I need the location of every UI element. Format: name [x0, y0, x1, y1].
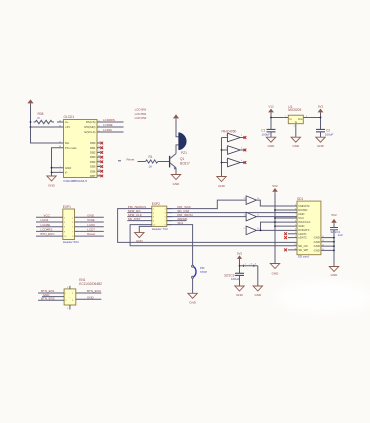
junction at R08 input: [30, 121, 32, 123]
wire GND to EN1: [42, 296, 64, 298]
svg-text:SD_/RST: SD_/RST: [128, 217, 141, 221]
svg-text:DB5: DB5: [90, 165, 96, 169]
svg-text:SD_WP: SD_WP: [298, 248, 308, 252]
wire BTN_ENC to EXP1: [36, 235, 58, 237]
wire PS-mode / GND / K- bus: [52, 148, 59, 176]
wire buffer input bus: [222, 138, 228, 177]
svg-text:+ G: + G: [249, 263, 253, 265]
wire LCD_RS to EXP1: [36, 230, 58, 232]
svg-text:PS mode: PS mode: [65, 146, 77, 150]
svg-text:GLCD1: GLCD1: [64, 115, 75, 119]
power symbol VCC (buzzer): [173, 114, 179, 119]
wire L1 to ground: [257, 266, 259, 286]
wire EXP2 row5 right to PRI STOP: [167, 225, 193, 266]
wire C4 / SD GND rail: [333, 223, 335, 266]
svg-text:Reset: Reset: [87, 232, 95, 236]
wire PRI STOP to ground: [192, 278, 194, 293]
svg-text:GND: GND: [65, 166, 71, 170]
svg-text:Reset: Reset: [127, 157, 135, 161]
wire Q1 emitter to ground: [175, 168, 177, 175]
ground symbol C2: [316, 137, 325, 142]
svg-text:R1: R1: [149, 155, 153, 159]
GLCD1 pin numbers: [59, 120, 101, 176]
junction buffer2 input: [221, 149, 223, 151]
svg-text:LCD#RS: LCD#RS: [103, 118, 115, 122]
svg-text:Header 5X2: Header 5X2: [63, 240, 79, 244]
wire VCC vertical to Rst: [31, 105, 59, 144]
no-connect X buffer U2A: [244, 136, 247, 139]
svg-text:GND: GND: [314, 248, 320, 252]
svg-text:GND: GND: [272, 272, 280, 276]
svg-text:LCD#RS: LCD#RS: [41, 228, 53, 232]
stub dash left of Reset: [118, 160, 121, 162]
svg-text:GND: GND: [292, 144, 300, 148]
EN1 bottom stub: [69, 305, 71, 310]
wire rail to SD DICMD: [275, 209, 297, 211]
svg-text:BTN_EN2: BTN_EN2: [41, 296, 55, 300]
SD1 pin names right: [314, 236, 320, 253]
SD1 pin names left: [298, 204, 310, 252]
svg-text:Q1: Q1: [180, 157, 184, 161]
svg-text:A+: A+: [65, 120, 69, 124]
svg-text:EXP2: EXP2: [152, 202, 160, 206]
wire GND from EN1: [76, 298, 102, 300]
wire LCD6 from EXP1: [79, 221, 104, 223]
GLCD module GLCD1: [64, 120, 98, 178]
svg-text:GND: GND: [268, 144, 276, 148]
buffer U2C: [226, 158, 245, 167]
svg-text:GND: GND: [48, 184, 56, 188]
svg-text:5V2: 5V2: [272, 184, 278, 188]
wire R1 to Q1 base: [158, 161, 170, 163]
svg-text:GND: GND: [236, 293, 244, 297]
power symbol VCC (GLCD section): [27, 99, 33, 104]
svg-text:V12: V12: [268, 105, 274, 109]
resistor R08: [34, 120, 55, 123]
svg-text:BTN_ENC: BTN_ENC: [87, 289, 102, 293]
svg-text:SD1: SD1: [177, 221, 183, 225]
svg-text:+5V: +5V: [65, 125, 70, 129]
wire 5V rail vertical: [274, 192, 276, 263]
svg-text:LCD6: LCD6: [87, 223, 95, 227]
GLCD1 DB0-DB7 no-connect stubs: [97, 143, 101, 176]
transistor Q1 BC817: [170, 154, 190, 170]
SD1 no-connect stub uDAT1: [288, 233, 297, 235]
wire regulator GND pin: [295, 124, 297, 138]
junction buffer3 input: [221, 162, 223, 164]
wire C2 to ground: [320, 132, 322, 137]
buffer U3B: [244, 212, 261, 221]
no-connect X buffer U2B: [244, 149, 247, 152]
wire U3C output branch to SD CLK: [261, 222, 298, 230]
svg-text:GND: GND: [136, 239, 144, 243]
junction SD GND rail dots: [333, 237, 335, 239]
stub EXP2 row4 right RES: [167, 220, 187, 222]
regulator U1 MIC5209: [283, 117, 308, 119]
ground symbol L1: [253, 286, 262, 291]
capacitor C3: [224, 273, 244, 281]
wire EXP2 row1 left loop to SD: [118, 209, 297, 243]
svg-text:DB7: DB7: [90, 174, 96, 178]
svg-text:PRI: PRI: [200, 266, 205, 270]
junction K- pin: [51, 172, 53, 174]
wire LCD_RW net: [97, 126, 124, 128]
svg-text:DB3: DB3: [90, 155, 96, 159]
junction U3C output branch: [260, 230, 262, 232]
jumper link L1: [240, 263, 258, 267]
svg-text:DB6: DB6: [90, 169, 96, 173]
ground symbol PRI STOP: [188, 293, 197, 298]
ground symbol below Q1: [171, 175, 180, 180]
wire U3C output to SD DODAT0: [256, 229, 297, 231]
svg-text:Rst: Rst: [65, 141, 69, 145]
ground symbol C1: [266, 137, 275, 142]
svg-text:SD card: SD card: [298, 255, 309, 259]
buffer U3C: [244, 226, 261, 235]
svg-text:100uF: 100uF: [325, 133, 334, 137]
wire SPI_CLK to EXP2: [127, 216, 147, 218]
wire SPI_DO to EXP2: [127, 212, 147, 214]
wire LCD7 from EXP1: [79, 226, 104, 228]
wire EXP2 row3 right to buffer U3B: [167, 216, 246, 218]
EXP1 pin stubs: [58, 217, 79, 236]
svg-text:DB4: DB4: [90, 160, 96, 164]
ground symbol regulator: [291, 137, 300, 142]
capacitor C1: [261, 128, 275, 136]
svg-text:5V2: 5V2: [318, 105, 324, 109]
svg-text:5V2: 5V2: [237, 251, 243, 255]
pushbutton PRI STOP: [192, 265, 208, 278]
capacitor C4: [330, 228, 343, 237]
ground symbol 5V rail bottom: [270, 264, 279, 269]
no-connect X marks DB0-DB7: [100, 142, 103, 178]
svg-text:uDAT2: uDAT2: [298, 236, 307, 240]
wire PZ1 to Q1 collector: [176, 145, 179, 154]
junction VIN node: [270, 117, 272, 119]
svg-text:VCC: VCC: [44, 213, 51, 217]
EXP2 pin numbers: [153, 209, 166, 227]
svg-text:GND: GND: [317, 144, 325, 148]
wire EXP2 row5 left loop to SD_CD: [130, 225, 297, 246]
svg-text:100uF: 100uF: [261, 133, 270, 137]
wire BTN_ENC from EN1: [76, 292, 102, 294]
buffer U2A: [226, 133, 245, 142]
wire VIN rail: [271, 113, 283, 129]
wire resistor to A+ pin: [57, 121, 64, 123]
wire EXP2 ground branch: [139, 226, 152, 232]
wire C3 to ground: [239, 275, 241, 286]
wire SD_RST to EXP2: [127, 220, 147, 222]
buffer U2B: [226, 146, 245, 155]
wire rail to SD GND row: [275, 225, 297, 227]
svg-text:Header 7X2: Header 7X2: [152, 227, 168, 231]
wire VCC to +5V pin: [31, 126, 64, 128]
svg-text:LCD4: LCD4: [41, 218, 49, 222]
svg-text:5V#E: 5V#E: [87, 218, 94, 222]
ground symbol below GLCD: [47, 176, 56, 181]
svg-text:EC11/02/D64B2: EC11/02/D64B2: [79, 282, 102, 286]
wire LCD4 to EXP1: [36, 221, 58, 223]
svg-text:GND: GND: [189, 301, 197, 305]
wire U3A output to SD CMDAT3: [256, 200, 297, 206]
svg-text:MIC5209: MIC5209: [288, 108, 301, 112]
U1 pin numbers: [284, 116, 308, 128]
svg-text:LCD RW: LCD RW: [135, 116, 147, 120]
svg-text:74HC4050: 74HC4050: [221, 129, 236, 133]
svg-text:RW(SID): RW(SID): [84, 125, 95, 129]
wire rail to SD VCC: [275, 217, 297, 219]
svg-text:PZ1: PZ1: [181, 151, 187, 155]
SD1 no-connect stub uDAT2: [288, 237, 297, 239]
wire LCD5 to EXP1: [36, 226, 58, 228]
wire LCD_E from EXP1: [79, 230, 104, 232]
svg-text:GND: GND: [254, 293, 262, 297]
wire regulator output: [308, 113, 320, 129]
wire C1 to ground: [270, 132, 272, 137]
svg-text:EXP1: EXP1: [63, 205, 71, 209]
svg-text:BTN_ENC: BTN_ENC: [41, 232, 56, 236]
svg-text:E(SCLK): E(SCLK): [84, 130, 95, 134]
svg-text:LCD#L: LCD#L: [103, 128, 113, 132]
wire U3B output to SD: [256, 216, 297, 218]
svg-text:DB1: DB1: [90, 146, 96, 150]
SD1 pin numbers: [294, 204, 324, 250]
svg-text:1uF: 1uF: [338, 233, 343, 237]
no-connect X buffer U2C: [244, 161, 247, 164]
background highlight swoosh: [277, 282, 370, 312]
ground symbol EXP2: [135, 233, 144, 238]
junction C3 node: [239, 265, 241, 267]
capacitor C2: [316, 128, 333, 136]
junction VOUT node: [320, 117, 322, 119]
EXP1 pin numbers: [64, 217, 74, 238]
wire Reset from EXP1: [79, 235, 104, 237]
junction at +5V wire: [30, 126, 32, 128]
EXP2 pin stubs: [147, 209, 172, 225]
svg-text:5V2: 5V2: [331, 213, 337, 217]
buffer U3A: [244, 196, 261, 205]
wire C3 node: [239, 260, 241, 274]
junction GND pin: [51, 167, 53, 169]
wire LCD_RS net: [97, 121, 124, 123]
svg-text:GND: GND: [173, 182, 181, 186]
wire VCC to PZ1: [176, 120, 179, 137]
svg-text:KS0108B64x64-5: KS0108B64x64-5: [64, 179, 88, 183]
EN1 top stub: [69, 286, 71, 289]
svg-text:STOP: STOP: [200, 270, 207, 274]
svg-text:Out: Out: [298, 117, 303, 121]
wire EXP2 row2 right to SD DICMD: [167, 212, 297, 214]
svg-text:DB2: DB2: [90, 151, 96, 155]
resistor R1: [146, 160, 158, 163]
EN1 internal marks: [65, 293, 74, 302]
wire SD GND stubs to rail: [321, 238, 334, 251]
svg-text:LCD#E: LCD#E: [41, 223, 51, 227]
svg-text:BC817: BC817: [180, 162, 190, 166]
wire BTN_EN2 to EN1: [38, 299, 64, 301]
wire VCC to EXP1: [36, 216, 58, 218]
SD1 no-connect stub SD_WP: [288, 249, 297, 251]
svg-text:LCD#E: LCD#E: [103, 123, 113, 127]
wire BTN_EN1 to EN1: [38, 292, 64, 294]
wire GND from EXP1: [79, 216, 104, 218]
svg-text:100uF: 100uF: [231, 277, 240, 281]
svg-text:GND: GND: [218, 184, 226, 188]
ground symbol SD rail: [329, 267, 338, 272]
svg-text:SD1: SD1: [297, 197, 303, 201]
GLCD1 left pin stubs: [59, 122, 64, 172]
svg-text:K-: K-: [65, 171, 68, 175]
svg-text:LCD7: LCD7: [87, 228, 95, 232]
svg-text:1K: 1K: [149, 164, 153, 168]
piezo sounder PZ1: [179, 133, 187, 156]
svg-text:G: G: [295, 120, 297, 124]
svg-text:GND: GND: [87, 296, 95, 300]
svg-text:GND: GND: [331, 273, 339, 277]
ground symbol C3: [235, 286, 244, 291]
svg-text:RS(CS): RS(CS): [86, 120, 96, 124]
svg-text:DB0: DB0: [90, 141, 96, 145]
wire Reset to R1: [138, 161, 146, 163]
svg-text:GND: GND: [87, 213, 95, 217]
wire LCD_E net: [97, 131, 124, 133]
ground symbol buffer array: [217, 177, 226, 182]
junction rail at CLK crossing: [274, 221, 276, 223]
wire EXP2 row1 right to buffer U3A: [167, 200, 246, 209]
